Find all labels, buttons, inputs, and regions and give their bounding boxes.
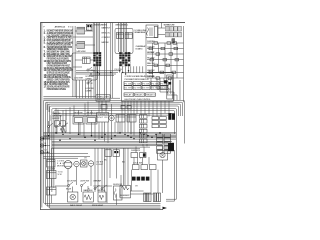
label conv fan: [57, 161, 65, 168]
wire ladder to EOC: [151, 78, 184, 102]
svg-text:RELAY 3: RELAY 3: [146, 94, 155, 97]
label latch sw: [77, 50, 86, 53]
switch S1: [55, 123, 61, 128]
label EOC: [125, 99, 152, 101]
label bake broil: [53, 112, 62, 120]
terminal L1: [40, 136, 50, 140]
connector block CA: [152, 117, 166, 128]
svg-text:LOCK SW: LOCK SW: [133, 163, 142, 165]
connector P1 pin grid: [93, 52, 101, 66]
connector P2 pin grid: [119, 52, 130, 66]
wire bus 3: [48, 104, 181, 207]
label conv rly: [102, 37, 111, 39]
svg-text:P1 BK: P1 BK: [125, 83, 133, 85]
wire bus right corner b: [166, 200, 175, 202]
wire drops c2: [119, 23, 127, 53]
label oven light lower: [96, 161, 104, 165]
relay K1: [77, 27, 85, 34]
wire mid verticals: [49, 101, 148, 146]
fan motor M3: [74, 161, 79, 166]
switch S2: [62, 123, 68, 128]
wire center rail A: [110, 23, 112, 99]
svg-text:BAKE RLY: BAKE RLY: [102, 27, 111, 30]
svg-text:RELAY 1: RELAY 1: [125, 94, 134, 97]
junction box JB1: [121, 105, 125, 109]
svg-text:TOD SW: TOD SW: [47, 169, 55, 171]
small box cluster D: [105, 150, 119, 157]
wire ladder feed: [146, 23, 184, 81]
wire inner left rail: [41, 23, 43, 208]
wire bus 4: [50, 106, 179, 209]
wire latch loop: [72, 53, 97, 80]
wire bus 6: [54, 111, 175, 202]
svg-text:RELAY 2: RELAY 2: [135, 94, 144, 97]
switch S2b: [48, 123, 54, 127]
connector block CB: [157, 134, 171, 153]
wire band drops: [47, 102, 118, 143]
relay K2: [77, 42, 85, 49]
terminal N: [40, 143, 50, 147]
label oven relay: [136, 45, 147, 50]
label surface units: [164, 24, 176, 27]
wire c1 to bus: [77, 66, 100, 98]
transformer T1: [167, 75, 173, 99]
svg-text:BROIL 3400W: BROIL 3400W: [92, 205, 103, 207]
door switch DS1: [87, 67, 94, 72]
svg-text:BOARD: BOARD: [136, 47, 144, 50]
label fan sw: [102, 41, 109, 44]
component TOD2: [47, 187, 57, 195]
svg-text:CONV RLY: CONV RLY: [102, 37, 111, 39]
relay box RB1: [47, 160, 56, 168]
relay K0: [87, 24, 93, 30]
junction dots mid: [48, 132, 161, 141]
svg-text:BAKE 2600W: BAKE 2600W: [70, 204, 82, 207]
element E5: [153, 193, 160, 202]
oven light switch box: [96, 95, 110, 101]
svg-text:UPPER: UPPER: [86, 78, 93, 80]
label top cluster1: [93, 25, 108, 27]
label double line: [135, 30, 147, 34]
selector box B: [61, 121, 66, 126]
infinite switch S3: [73, 113, 84, 125]
label lock mtr: [74, 78, 84, 80]
terminal cell dark E: [164, 80, 171, 84]
wire ladder rungs: [147, 43, 184, 78]
broil element box: [98, 190, 107, 202]
svg-text:BREAK RELAY: BREAK RELAY: [135, 31, 147, 34]
label broil rly: [102, 32, 111, 34]
connector shell dark B: [168, 143, 174, 151]
sensor box: [113, 184, 123, 200]
oven light OL: [81, 160, 88, 167]
wire code labels: [66, 157, 142, 190]
title row: [43, 26, 72, 29]
label DLB: [86, 27, 92, 31]
junction box JB3: [101, 105, 107, 109]
switch S9: [94, 185, 100, 190]
element E4: [144, 193, 151, 202]
label bottom values: [70, 204, 103, 207]
svg-text:ED: ED: [68, 27, 72, 29]
svg-text:DOUBLE LINE BRK: DOUBLE LINE BRK: [93, 25, 108, 27]
svg-text:FAN SW: FAN SW: [102, 41, 109, 44]
relay K3: [83, 57, 91, 64]
svg-text:BK-W: BK-W: [66, 188, 71, 190]
svg-text:P1 CONNECTOR P2 CONNECTOR: P1 CONNECTOR P2 CONNECTOR: [125, 79, 150, 81]
svg-text:PROPER GROUNDING OF APPLIANCE.: PROPER GROUNDING OF APPLIANCE.: [47, 88, 66, 91]
svg-text:K1 RY: K1 RY: [125, 88, 133, 90]
svg-text:LATCH SW: LATCH SW: [77, 50, 86, 53]
svg-text:LIGHT SW: LIGHT SW: [147, 70, 155, 72]
component S5: [116, 115, 125, 123]
convection motor M1: [64, 161, 72, 169]
coil R1: [60, 128, 66, 133]
svg-text:K4 RY: K4 RY: [152, 88, 160, 90]
wire rail B: [74, 26, 76, 97]
svg-text:CONTROL BOARD RELAY OUTPUTS: CONTROL BOARD RELAY OUTPUTS: [125, 75, 156, 78]
svg-text:LOCK SW: LOCK SW: [147, 46, 155, 48]
junction dots terminals: [43, 138, 49, 153]
svg-text:DOOR LOCK: DOOR LOCK: [131, 150, 141, 152]
wire lower bus extra: [54, 113, 172, 115]
wire mid rail D: [105, 23, 107, 99]
label door sw upper: [86, 76, 94, 80]
comp row rt: [131, 153, 146, 158]
wire upper bus: [43, 96, 120, 100]
wire stubs c1: [73, 31, 95, 67]
svg-text:K2 RY: K2 RY: [134, 88, 142, 90]
label top cluster2: [115, 25, 129, 27]
connector shell dark A: [168, 113, 175, 120]
wire bottom verticals: [52, 143, 167, 206]
svg-text:W: W: [91, 83, 93, 85]
wire EOC drops: [122, 101, 169, 136]
svg-text:LIGHT: LIGHT: [96, 164, 104, 166]
switch S8: [81, 182, 87, 187]
relay K4: [117, 33, 124, 39]
wire arrow: [163, 207, 168, 210]
svg-text:ELECTRONIC OVEN CONTROL: ELECTRONIC OVEN CONTROL: [125, 99, 152, 101]
connector row dark C: [132, 177, 149, 181]
label door sw: [67, 181, 102, 183]
switch S10: [101, 185, 107, 190]
connector stack P5: [140, 115, 148, 143]
wire mid rail C: [104, 23, 106, 99]
wire bottom horizontals: [43, 154, 153, 194]
component TOD: [47, 169, 57, 179]
junction box JB2: [127, 105, 131, 109]
infinite switch S4: [86, 113, 97, 125]
ladder labels: [147, 41, 155, 78]
wire oven loop: [115, 28, 133, 53]
terminal strip TB2: [165, 32, 181, 37]
wire ladder inner rails: [153, 43, 178, 78]
door switch DS2: [87, 80, 93, 85]
svg-text:DOOR SW: DOOR SW: [147, 41, 155, 43]
lamp box right: [158, 151, 168, 161]
svg-text:MW RELAY: MW RELAY: [147, 51, 155, 54]
notes legend: [44, 30, 73, 91]
terminal L2: [40, 150, 50, 154]
svg-text:SURFACE UNIT: SURFACE UNIT: [164, 24, 176, 27]
svg-text:HI LIMIT: HI LIMIT: [147, 58, 155, 60]
border frame: [40, 23, 185, 210]
component S6: [127, 115, 136, 123]
wire bus 2: [45, 102, 182, 205]
wire bus 1: [43, 100, 184, 203]
wire center rail B: [111, 23, 113, 99]
oven lamp box: [68, 192, 78, 202]
hatched element H1: [172, 39, 175, 43]
wire rail A: [72, 26, 74, 97]
label bottom right: [131, 150, 142, 165]
svg-text:LOCK MTR: LOCK MTR: [74, 78, 84, 80]
label bake rly: [102, 27, 111, 30]
svg-text:K3 RY: K3 RY: [143, 88, 151, 90]
svg-text:MOTOR: MOTOR: [57, 165, 65, 167]
svg-text:UNIT RF: UNIT RF: [98, 117, 109, 119]
clock module B1: [146, 25, 158, 38]
wire bus right corner a: [166, 198, 176, 200]
svg-text:LIGHT SW: LIGHT SW: [80, 181, 89, 183]
bake element box: [83, 189, 93, 202]
svg-text:P2 BK: P2 BK: [134, 83, 142, 85]
svg-text:DOOR SW: DOOR SW: [67, 181, 76, 183]
wire drops c1: [93, 23, 99, 53]
comp row rt2: [133, 165, 157, 170]
wire bus under clusters: [76, 71, 120, 76]
label boxes row: [97, 113, 109, 123]
svg-text:LOCKOUT: LOCKOUT: [53, 118, 61, 120]
ladder components: [149, 42, 179, 79]
svg-text:SW: SW: [58, 174, 62, 176]
terminal strip TB1: [165, 27, 181, 32]
svg-text:OVEN TMP: OVEN TMP: [93, 181, 102, 183]
svg-text:P4 BK: P4 BK: [152, 83, 160, 85]
EOC pin cells: [124, 75, 168, 97]
junction dots c2: [90, 70, 129, 75]
svg-text:FAN SW: FAN SW: [147, 62, 155, 65]
wire c2 to bus: [120, 66, 143, 73]
label lock lower: [86, 88, 94, 92]
motor M2: [109, 115, 114, 120]
label tod lower: [58, 171, 64, 175]
svg-text:P3 BK: P3 BK: [143, 83, 151, 85]
relay K5: [125, 33, 132, 39]
svg-text:A/W SER 10-02: A/W SER 10-02: [55, 26, 66, 29]
switch S7: [68, 182, 74, 187]
selector box A: [55, 121, 60, 126]
svg-text:ELEMENT: ELEMENT: [121, 195, 131, 197]
element box left: [120, 185, 130, 198]
wire mid band bus: [43, 133, 176, 149]
motor M4: [88, 161, 93, 166]
wire bus 5: [52, 109, 176, 200]
svg-text:LOWER: LOWER: [86, 90, 93, 92]
label p4: [115, 69, 123, 71]
electronic oven control U1: [122, 73, 174, 102]
